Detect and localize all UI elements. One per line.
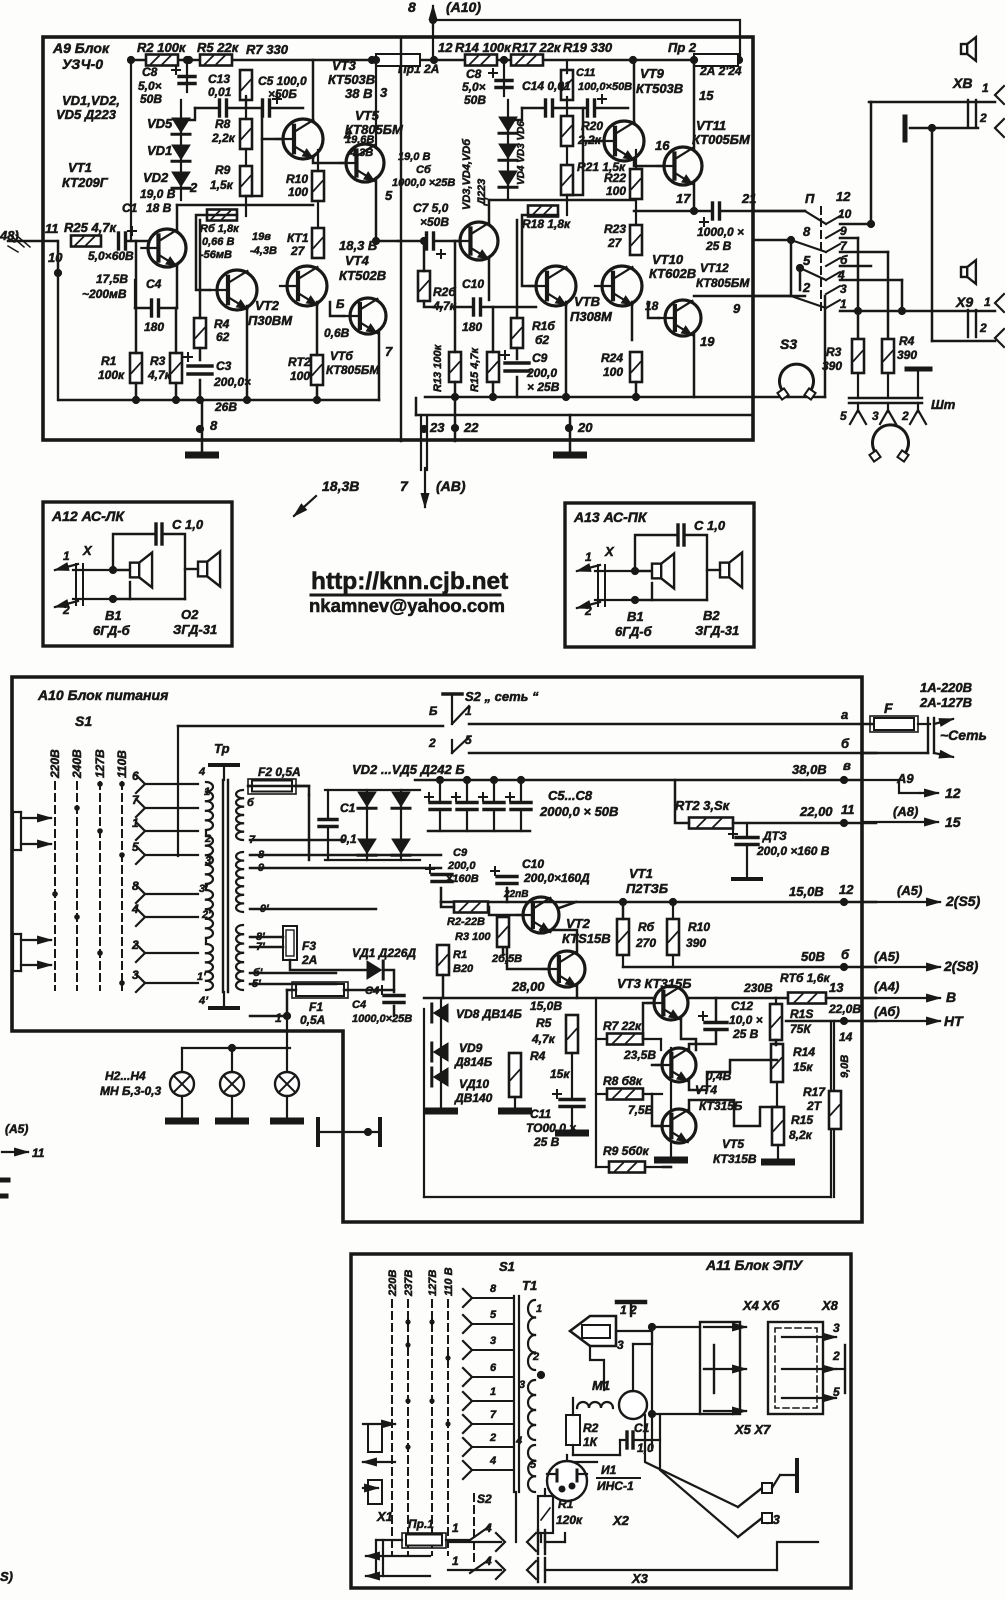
wire Б down [177, 726, 179, 856]
svg-text:R1б: R1б [532, 319, 555, 333]
arrow margin 11 [2, 1146, 45, 1160]
label R24b [603, 365, 623, 379]
label S2 А11 [477, 1492, 492, 1506]
node n22 [451, 424, 459, 432]
node n [185, 56, 193, 64]
label VT12 КТ8056М [696, 261, 750, 290]
wire VT1 emitter [176, 264, 179, 308]
wire cap6 [466, 780, 468, 831]
label R3 390b [822, 359, 842, 373]
label VD1 Д226Д [352, 946, 416, 960]
resistor R22 [630, 169, 642, 199]
capacitor C1 [119, 227, 137, 249]
wire c12 rail2 [722, 210, 805, 213]
label C 1,0 А12 [172, 517, 204, 532]
svg-text:(А5): (А5) [897, 883, 922, 898]
diode VD2 [172, 172, 190, 188]
label С5b [268, 87, 297, 101]
svg-text:2: 2 [62, 603, 70, 617]
svg-text:Х9: Х9 [955, 294, 973, 310]
svg-text:R14: R14 [793, 1045, 815, 1059]
capacitor C4 А10 [378, 986, 404, 1003]
label node 21 [741, 191, 756, 206]
wire x9 line2 [932, 340, 995, 343]
svg-text:Шт: Шт [931, 397, 956, 412]
svg-text:12: 12 [839, 882, 854, 897]
svg-text:(А5): (А5) [5, 1122, 28, 1136]
svg-text:5: 5 [803, 253, 811, 268]
wire 23 pair [421, 415, 427, 470]
svg-text:VD8 ДВ14Б: VD8 ДВ14Б [456, 1007, 522, 1021]
capacitor C5 filt [425, 793, 450, 810]
wire r15 up [492, 307, 495, 352]
label R10 100 [286, 172, 308, 186]
svg-text:Т1: Т1 [522, 1278, 537, 1293]
П left contact 3 [800, 268, 826, 280]
svg-text:П2ТЗБ: П2ТЗБ [626, 881, 668, 896]
node nr2 [127, 56, 135, 64]
label 12 out [945, 785, 961, 801]
label R13 100к rot [432, 343, 444, 392]
switch S2 А11 b [470, 1559, 490, 1573]
svg-text:1: 1 [452, 1554, 459, 1568]
block А12 outline [43, 502, 232, 646]
label R17 27 R15 8,2к [789, 1085, 826, 1142]
diode VD6 [499, 171, 517, 187]
resistor R16 А10 [788, 993, 826, 1004]
svg-text:25 В: 25 В [705, 239, 732, 253]
svg-text:R24: R24 [601, 351, 623, 365]
label Х8 [952, 75, 972, 91]
wire c3 down [199, 380, 202, 400]
wire R19 [566, 60, 568, 73]
wire cap row3 [270, 107, 303, 110]
svg-text:50В: 50В [464, 93, 486, 107]
wire r1 gnd [544, 1489, 546, 1548]
svg-text:240В: 240В [70, 749, 84, 779]
svg-text:390: 390 [897, 348, 917, 362]
label Т1 taps [515, 1303, 542, 1471]
label R22 100 [604, 171, 626, 185]
wire r2 c1 [573, 1398, 660, 1462]
svg-text:П30ВМ: П30ВМ [248, 313, 293, 328]
svg-text:110В: 110В [115, 750, 129, 778]
svg-text:62: 62 [216, 330, 230, 344]
label С11 100,0×50В [576, 67, 632, 93]
net А9 out [862, 780, 938, 797]
node n22b [840, 1017, 848, 1025]
label C1 А11 [634, 1421, 650, 1435]
svg-text:25 В: 25 В [732, 1027, 759, 1041]
wire vt2 reg wires [507, 948, 549, 969]
svg-text:КТ503В: КТ503В [328, 72, 375, 87]
svg-text:27: 27 [607, 236, 623, 250]
label (А5) 12 [897, 883, 922, 898]
svg-text:VТ10: VТ10 [652, 252, 684, 267]
wire feed y296 [753, 295, 791, 298]
resistor R6 А10 [617, 919, 629, 955]
label R26b [432, 299, 457, 313]
svg-text:УЗЧ-0: УЗЧ-0 [62, 56, 103, 72]
label VT5 КТ805БМ [345, 108, 404, 137]
label C10r [462, 277, 484, 291]
wire vt5 wire [313, 157, 345, 163]
svg-text:2: 2 [802, 280, 811, 295]
svg-text:3: 3 [833, 1321, 840, 1335]
pin fork [910, 403, 926, 424]
svg-text:1: 1 [275, 1011, 282, 1025]
wire row4 right [840, 279, 902, 282]
wire vt45 [670, 1048, 672, 1109]
svg-text:А9 Блок: А9 Блок [52, 40, 110, 56]
wire cap row [195, 107, 219, 110]
svg-text:2(S8): 2(S8) [943, 958, 979, 974]
svg-text:1: 1 [132, 816, 139, 830]
lamp Н3 [220, 1072, 244, 1096]
wire vt2 base [196, 215, 237, 290]
label node Б [336, 297, 345, 311]
label С5 100,0×50Б [258, 74, 307, 88]
S1 А11 wire 6 [472, 1376, 514, 1378]
conn feed wires [652, 1327, 700, 1450]
T bar d13 [733, 877, 761, 881]
svg-text:237В: 237В [403, 1270, 415, 1297]
transistor VT4 [280, 266, 327, 306]
wire gnd stem r [569, 415, 572, 452]
label R6 270 [635, 920, 656, 950]
winding Т1 a [528, 1300, 535, 1370]
label Пр2 [668, 40, 697, 55]
label 50В [801, 949, 825, 964]
transistor VT2 А10 [543, 951, 585, 987]
svg-text:18,3В: 18,3В [322, 478, 359, 494]
svg-text:200,0×160Д: 200,0×160Д [523, 871, 590, 885]
svg-text:28,00: 28,00 [511, 979, 545, 994]
node n row10 [867, 220, 875, 228]
label 1 2 head [620, 1303, 637, 1317]
capacitor C А12 [156, 524, 162, 544]
wire misc3 [250, 867, 441, 870]
wire right rail 9 [824, 296, 827, 397]
svg-text:RТб 1,6к: RТб 1,6к [780, 971, 830, 985]
block А10 outline [12, 677, 862, 1222]
jack X2 [496, 1530, 545, 1554]
wire lamp feed [182, 1016, 290, 1072]
label 1 А12 [63, 549, 70, 563]
node nl [228, 1044, 236, 1052]
svg-text:25 В: 25 В [533, 1135, 560, 1149]
svg-text:Н2...Н4: Н2...Н4 [105, 1069, 146, 1083]
svg-text:А12 АС-ЛК: А12 АС-ЛК [51, 508, 125, 524]
net (А5)2 out [862, 963, 940, 971]
svg-text:20: 20 [577, 420, 593, 435]
wire Т1 bottom [515, 1492, 517, 1542]
svg-text:2,2к: 2,2к [211, 131, 236, 145]
node nв [840, 776, 848, 784]
label R2 1к [583, 1421, 599, 1435]
svg-text:8: 8 [803, 224, 811, 239]
winding Тр primary [206, 782, 213, 990]
wire r15 dn [492, 382, 495, 397]
resistor R9 А10 [609, 1162, 645, 1173]
S1 contact 4 [136, 908, 145, 926]
node nb6 [451, 393, 459, 401]
svg-text:4,3В: 4,3В [349, 147, 373, 159]
label R24 100 [601, 351, 623, 365]
pin fork [880, 403, 896, 424]
label S2 Б [429, 704, 438, 718]
wire r6r10 up [622, 902, 625, 919]
resistor R5 А10 [566, 1015, 578, 1053]
svg-text:200,0×: 200,0× [213, 375, 251, 389]
label R18 1,8к [522, 217, 571, 231]
label VT6 КТ805БМ [326, 349, 380, 377]
svg-text:КТ315В: КТ315В [713, 1152, 757, 1166]
svg-text:VТ9: VТ9 [640, 66, 665, 81]
svg-text:19: 19 [700, 334, 715, 349]
speaker icon top [961, 37, 976, 61]
wire left col rail [177, 204, 313, 207]
wire vt7em [488, 257, 491, 300]
wire r13 lower [775, 1040, 778, 1045]
svg-text:F3: F3 [302, 939, 316, 953]
S1 contact 7 [136, 799, 145, 817]
svg-text:С12: С12 [731, 999, 753, 1013]
label VT1 П2ТЗБ [626, 866, 668, 896]
label 2(S5) [945, 893, 981, 909]
winding Т1 b [528, 1380, 535, 1440]
dashed S1 127В [99, 782, 101, 990]
wire x9 line1 [840, 310, 995, 313]
svg-text:С 1,0: С 1,0 [694, 518, 726, 533]
label node 18 [645, 299, 659, 313]
wire r26 dn [424, 301, 442, 307]
svg-text:VТ2: VТ2 [255, 298, 280, 313]
label 127В rot А11 [427, 1270, 439, 1296]
wire cap А13 [635, 535, 707, 600]
label F2 0,5А [258, 765, 301, 779]
label (А4) [874, 979, 899, 994]
label 110В rot [115, 750, 129, 778]
net (А5) out [862, 898, 940, 906]
node nb3 [196, 396, 204, 404]
svg-text:КТ805БМ: КТ805БМ [326, 363, 380, 377]
svg-text:R15 4,7к: R15 4,7к [469, 346, 481, 392]
svg-text:В1: В1 [105, 608, 122, 623]
label r1 [840, 297, 847, 311]
resistor R12 А10 [689, 818, 733, 829]
node nj1 А12 [109, 566, 117, 574]
svg-text:5: 5 [132, 840, 139, 854]
wire f2 out [296, 786, 309, 795]
label 110 В rot А11 [443, 1267, 455, 1296]
label R17 22к [512, 40, 562, 55]
svg-text:17: 17 [676, 191, 691, 206]
svg-text:С4: С4 [352, 999, 366, 1011]
wire fork bus [849, 397, 922, 400]
capacitor C8 [172, 66, 195, 84]
label S2 2 [428, 736, 436, 750]
label l2 [802, 280, 811, 295]
svg-text:(АВ): (АВ) [436, 478, 466, 494]
svg-text:8: 8 [490, 1283, 497, 1295]
label l8 [803, 224, 811, 239]
svg-text:2: 2 [189, 180, 198, 195]
svg-text:2: 2 [979, 321, 987, 335]
label 15 out [945, 814, 961, 830]
label 22,0В r [828, 1002, 861, 1016]
node S1 dot [74, 914, 80, 920]
resistor R1 А11 [538, 1496, 553, 1533]
transistor VT8 [529, 266, 576, 306]
label 14 [839, 1030, 853, 1044]
svg-text:А10 Блок питания: А10 Блок питания [37, 687, 168, 703]
wire sp А13 [635, 571, 707, 600]
S1 А11 wire 3 [472, 1349, 514, 1351]
label r7 [840, 239, 848, 253]
label node 7 [385, 344, 393, 359]
wire right col rail [489, 199, 634, 202]
svg-text:R4: R4 [530, 1049, 546, 1063]
resistor R2 [146, 55, 178, 66]
label R2 100к [137, 40, 187, 55]
label node 5 [385, 188, 393, 203]
plug Х8 lines [968, 100, 976, 127]
svg-text:3: 3 [380, 85, 388, 100]
svg-text:5: 5 [840, 409, 847, 423]
wire vt8 vert [516, 220, 519, 318]
ground r chain [765, 1159, 792, 1166]
svg-text:(А4): (А4) [874, 979, 899, 994]
resistor R3 out [852, 339, 864, 373]
label 6ГД-6 А12 [93, 623, 131, 638]
capacitor C1 А10 [319, 820, 337, 827]
core Т1 [514, 1296, 519, 1492]
dashed А11 110 В [447, 1300, 449, 1555]
svg-text:200,0: 200,0 [447, 860, 476, 872]
wire vt3 up [312, 60, 315, 122]
svg-text:С1: С1 [122, 201, 138, 215]
wire top jack line [869, 101, 995, 104]
wire r3 dn [858, 373, 888, 398]
label email [309, 595, 505, 616]
label R22b [606, 184, 626, 198]
label Х2 [612, 1513, 630, 1528]
svg-text:100: 100 [290, 369, 310, 383]
svg-text:19,0 В: 19,0 В [140, 187, 176, 201]
label r9 [840, 224, 847, 238]
svg-text:15к: 15к [550, 1067, 570, 1081]
resistor R14 А10 [771, 1044, 783, 1082]
label C1 0,1 [340, 832, 357, 846]
svg-text:38,0В: 38,0В [792, 762, 827, 777]
S1 А11 contact 2 [463, 1438, 472, 1456]
svg-text:220В: 220В [48, 749, 62, 779]
svg-text:б2: б2 [535, 333, 549, 347]
motor М1 [619, 1391, 647, 1419]
wire 22 b line [786, 1020, 876, 1023]
label 15,0В [789, 884, 824, 899]
label А9 out [896, 771, 914, 786]
winding Т1 c [528, 1445, 535, 1492]
wire c7out [436, 240, 459, 243]
svg-text:200,0 ×160 В: 200,0 ×160 В [756, 844, 830, 858]
wire r9 right [663, 1166, 671, 1169]
svg-text:С 1,0: С 1,0 [172, 517, 204, 532]
label 13r [829, 980, 844, 995]
svg-text:26В: 26В [214, 400, 237, 414]
label node 4 [343, 128, 352, 143]
label С14 0,01 [522, 79, 571, 93]
S1 А11 wire 5 [472, 1323, 514, 1325]
node nr10 [669, 898, 677, 906]
plug X1 lines [376, 1540, 470, 1576]
node np5 [796, 264, 804, 272]
wire misc4 [250, 908, 376, 911]
node nc7 [490, 776, 498, 784]
S1 А11 num 6 [490, 1362, 497, 1374]
capacitor C11r [588, 95, 607, 116]
svg-text:6ГД-б: 6ГД-б [615, 624, 653, 639]
arrow X1a [366, 1552, 430, 1560]
wire sp2 А13 [707, 569, 720, 571]
svg-text:3: 3 [132, 968, 139, 982]
resistor R20 [561, 116, 573, 146]
pin fork [850, 403, 866, 424]
resistor R8 [240, 119, 252, 149]
svg-text:R4: R4 [214, 317, 230, 331]
label pin 10 [48, 250, 63, 265]
svg-text:11: 11 [841, 802, 855, 817]
svg-text:2А 2'24: 2А 2'24 [699, 64, 742, 78]
winding Тр secondary 2 [236, 852, 243, 912]
svg-text:8: 8 [408, 0, 416, 15]
S1 wire 7 [145, 807, 198, 809]
resistor R4 А10 [509, 1053, 521, 1097]
switch S2b [452, 737, 469, 753]
S1 А11 num 1 [490, 1386, 496, 1398]
svg-text:1: 1 [490, 1386, 496, 1398]
wire net а [469, 723, 876, 726]
node S1 dot [52, 891, 58, 897]
wire r9 [596, 1166, 671, 1168]
node nb5 [313, 396, 321, 404]
label ~Сеть [940, 727, 987, 743]
jack Х9 pin1 [995, 294, 1004, 312]
svg-text:КТS15В: КТS15В [562, 931, 611, 946]
resistor R7 А10 [607, 1034, 643, 1045]
svg-text:С8: С8 [466, 67, 482, 81]
wire vt8 base [522, 215, 558, 286]
label R1b [98, 368, 125, 382]
net (Аб) out [862, 1017, 940, 1025]
svg-text:В1: В1 [627, 609, 644, 624]
wire bus2 [416, 414, 753, 417]
wire x871 [870, 102, 873, 224]
capacitor C10r [474, 299, 481, 315]
label R12b [290, 369, 310, 383]
label С8 5,0×50В [138, 65, 162, 106]
node nr6 [619, 898, 627, 906]
svg-text:7: 7 [385, 344, 393, 359]
svg-text:S2: S2 [477, 1492, 492, 1506]
svg-text:1: 1 [465, 704, 472, 718]
svg-text:Д814Б: Д814Б [454, 1055, 493, 1069]
svg-text:390: 390 [686, 936, 706, 950]
svg-text:П: П [805, 191, 815, 206]
plug А12 [73, 564, 113, 605]
wire r1 dn [135, 383, 138, 400]
